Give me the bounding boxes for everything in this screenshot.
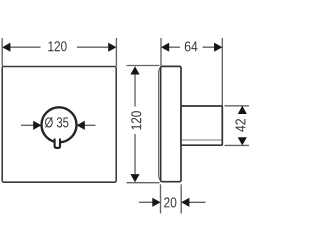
dimension 42 right: label (rotated): [235, 119, 245, 132]
dimension 120 top: extension lines: [2, 38, 116, 66]
dimension 120 right of front view: extension lines: [127, 66, 160, 183]
dimension 20 bottom: extension lines: [161, 184, 182, 213]
dimension 64 top: label: [185, 41, 198, 51]
side view plate body: [161, 66, 181, 181]
dimension 64 top: extension lines: [161, 38, 222, 106]
dimension 20 bottom: label: [164, 197, 176, 207]
dimension 42 right: arrows: [238, 106, 247, 146]
dimension 120 top: label: [48, 41, 66, 51]
keyway tab at circle bottom: [55, 139, 60, 148]
dimension 20 bottom: arrows outside: [139, 198, 206, 207]
dimension 64 top: line and arrows: [161, 43, 222, 52]
dimension 120 top: line and arrows: [2, 43, 116, 52]
handle circle: [42, 107, 77, 142]
diameter label O 35: [45, 117, 69, 128]
front escutcheon plate outline: [2, 67, 116, 183]
dimension 120 right of front view: label (rotated): [131, 111, 141, 129]
side view plate face curve: [159, 67, 161, 180]
diameter arrow left: [21, 121, 41, 130]
dimension 120 right of front view: line and arrows: [130, 66, 139, 182]
diameter arrow right: [77, 121, 96, 130]
side view knob: [181, 106, 222, 145]
dimension 42 right: extension lines: [225, 106, 250, 146]
